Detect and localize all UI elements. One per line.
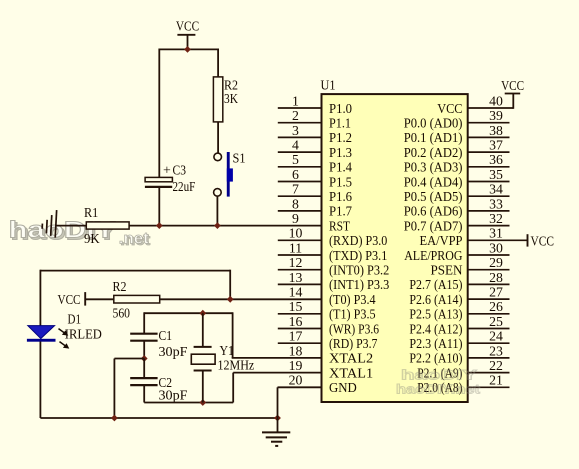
svg-text:37: 37 bbox=[489, 138, 503, 153]
U1 pin 5 stub bbox=[278, 152, 322, 167]
wire D1 anode vertical bbox=[39, 270, 41, 326]
U1 pin 34 stub bbox=[468, 182, 510, 197]
svg-text:38: 38 bbox=[489, 123, 503, 138]
svg-text:39: 39 bbox=[489, 108, 503, 123]
watermark fragment over P2.0/P2.1 rows bbox=[396, 367, 481, 397]
U1 pin 3 stub bbox=[278, 123, 322, 138]
svg-text:(T1) P3.5: (T1) P3.5 bbox=[329, 307, 376, 323]
U1 pin 6 stub bbox=[278, 167, 322, 182]
svg-text:5: 5 bbox=[292, 152, 299, 167]
resistor R2 3K bbox=[213, 77, 238, 122]
wire C3 to RST line bbox=[158, 187, 160, 226]
wire bottom ground rail bbox=[40, 417, 277, 419]
wire C1 to mid junction bbox=[143, 341, 145, 359]
svg-text:(INT0) P3.2: (INT0) P3.2 bbox=[329, 263, 389, 279]
svg-text:12MHz: 12MHz bbox=[218, 357, 255, 372]
svg-text:S1: S1 bbox=[233, 150, 246, 165]
svg-text:15: 15 bbox=[289, 299, 303, 314]
svg-text:(WR) P3.6: (WR) P3.6 bbox=[329, 321, 379, 337]
wire top loop horizontal bbox=[40, 270, 230, 272]
node crystal top junction bbox=[199, 310, 206, 317]
svg-text:P1.5: P1.5 bbox=[329, 174, 352, 189]
U1 pin 31 stub bbox=[468, 226, 528, 241]
svg-text:16: 16 bbox=[289, 314, 303, 329]
U1 pin 32 stub bbox=[468, 211, 510, 226]
svg-text:Y1: Y1 bbox=[220, 343, 235, 358]
U1 pin 28 stub bbox=[468, 270, 510, 285]
U1 pin 16 stub bbox=[278, 314, 322, 329]
svg-text:PSEN: PSEN bbox=[431, 263, 463, 278]
svg-text:C1: C1 bbox=[159, 328, 173, 343]
svg-text:14: 14 bbox=[289, 285, 303, 300]
svg-text:9: 9 bbox=[292, 211, 299, 226]
wire junction to earth bbox=[277, 418, 279, 432]
U1 pin 15 stub bbox=[278, 299, 322, 314]
svg-text:22: 22 bbox=[489, 358, 503, 373]
wire R2 to U1 pin 14 bbox=[160, 298, 322, 300]
svg-text:P2.6 (A14): P2.6 (A14) bbox=[409, 292, 462, 308]
U1 pin 7 stub bbox=[278, 182, 322, 197]
U1 pin 25 stub bbox=[468, 314, 510, 329]
U1 pin 37 stub bbox=[468, 138, 510, 153]
svg-text:VCC: VCC bbox=[437, 101, 462, 116]
U1 left pin names bbox=[329, 101, 389, 395]
node GND junction bbox=[274, 415, 281, 422]
svg-text:XTAL1: XTAL1 bbox=[329, 365, 373, 380]
svg-text:VCC: VCC bbox=[501, 78, 524, 93]
svg-text:XTAL2: XTAL2 bbox=[329, 351, 373, 366]
svg-text:9K: 9K bbox=[84, 231, 100, 246]
op IC U1 body bbox=[322, 94, 468, 402]
svg-text:35: 35 bbox=[489, 167, 503, 182]
svg-text:P2.7 (A15): P2.7 (A15) bbox=[409, 277, 462, 293]
svg-text:R1: R1 bbox=[84, 205, 98, 220]
svg-text:P0.5 (AD5): P0.5 (AD5) bbox=[404, 189, 463, 205]
U1 pin 17 stub bbox=[278, 329, 322, 344]
svg-text:31: 31 bbox=[489, 226, 503, 241]
node C3/RST junction bbox=[156, 222, 163, 229]
switch S1 bbox=[214, 150, 246, 196]
crystal Y1 12MHz bbox=[191, 343, 254, 372]
svg-text:33: 33 bbox=[489, 196, 503, 211]
svg-text:10: 10 bbox=[289, 226, 303, 241]
U1 pin 1 stub bbox=[278, 93, 322, 108]
svg-text:VCC: VCC bbox=[58, 292, 81, 307]
svg-text:13: 13 bbox=[289, 270, 303, 285]
LED D1 IRLED bbox=[27, 312, 102, 349]
node crystal bottom junction bbox=[199, 399, 206, 406]
wire U1 pin 20 GND down bbox=[277, 387, 279, 418]
wire XTAL bottom horizontal bbox=[144, 402, 233, 404]
U1 pin 26 stub bbox=[468, 299, 510, 314]
svg-text:30pF: 30pF bbox=[159, 388, 188, 403]
svg-text:P2.4 (A12): P2.4 (A12) bbox=[409, 321, 462, 337]
svg-text:haoDIY: haoDIY bbox=[401, 367, 478, 383]
svg-text:P2.2 (A10): P2.2 (A10) bbox=[409, 351, 462, 367]
U1 pin 22 stub bbox=[468, 358, 510, 373]
svg-text:30pF: 30pF bbox=[159, 344, 188, 359]
svg-text:P1.2: P1.2 bbox=[329, 130, 352, 145]
capacitor C2 30pF bbox=[130, 375, 188, 403]
wire VCC to R2 bbox=[85, 298, 114, 300]
svg-text:P1.4: P1.4 bbox=[329, 160, 352, 175]
svg-text:(RD) P3.7: (RD) P3.7 bbox=[329, 336, 377, 352]
wire crystal bottom lead bbox=[202, 371, 204, 403]
svg-text:24: 24 bbox=[489, 329, 503, 344]
U1 pin 13 stub bbox=[278, 270, 322, 285]
svg-text:8: 8 bbox=[292, 196, 299, 211]
U1 pin 10 stub bbox=[278, 226, 322, 241]
svg-text:26: 26 bbox=[489, 299, 503, 314]
U1 pin 4 stub bbox=[278, 138, 322, 153]
power VCC (U1 pin 31 EA) bbox=[528, 233, 555, 248]
svg-text:29: 29 bbox=[489, 255, 503, 270]
svg-text:(INT1) P3.3: (INT1) P3.3 bbox=[329, 277, 389, 293]
wire mid tap horizontal bbox=[114, 358, 144, 360]
U1 pin 23 stub bbox=[468, 343, 510, 358]
svg-text:17: 17 bbox=[289, 329, 303, 344]
svg-text:EA/VPP: EA/VPP bbox=[420, 233, 463, 248]
svg-text:3: 3 bbox=[292, 123, 299, 138]
power VCC (top reset circuit) bbox=[176, 19, 199, 50]
svg-text:4: 4 bbox=[292, 138, 299, 153]
svg-text:P0.6 (AD6): P0.6 (AD6) bbox=[404, 204, 463, 220]
capacitor C1 30pF bbox=[130, 328, 188, 359]
svg-text:U1: U1 bbox=[321, 78, 336, 93]
svg-text:.net: .net bbox=[119, 231, 149, 248]
svg-text:C3: C3 bbox=[173, 163, 187, 178]
wire crystal top lead bbox=[202, 313, 204, 347]
wire left cap branch down to C1 bbox=[143, 312, 145, 333]
svg-text:VCC: VCC bbox=[531, 233, 555, 248]
svg-text:P2.5 (A13): P2.5 (A13) bbox=[409, 307, 462, 323]
wire mid junction down to C2 bbox=[143, 359, 145, 379]
svg-text:P1.3: P1.3 bbox=[329, 145, 352, 160]
node C1/C2 midpoint junction bbox=[141, 355, 148, 362]
svg-text:19: 19 bbox=[289, 358, 303, 373]
U1 pin 36 stub bbox=[468, 152, 510, 167]
resistor R1 9K bbox=[84, 205, 129, 246]
svg-text:IRLED: IRLED bbox=[65, 326, 102, 341]
svg-text:27: 27 bbox=[489, 285, 503, 300]
svg-text:28: 28 bbox=[489, 270, 503, 285]
wire to U1 pin 18 XTAL2 bbox=[232, 357, 322, 359]
svg-text:21: 21 bbox=[489, 373, 503, 388]
watermark haoDIY.net bbox=[9, 217, 151, 250]
wire pin 20 stub horizontal bbox=[278, 386, 322, 388]
svg-text:(T0) P3.4: (T0) P3.4 bbox=[329, 292, 376, 308]
svg-text:D1: D1 bbox=[68, 312, 82, 327]
node S1/RST junction bbox=[214, 222, 221, 229]
svg-text:P0.0 (AD0): P0.0 (AD0) bbox=[404, 116, 463, 132]
U1 pin 33 stub bbox=[468, 196, 510, 211]
U1 pin 35 stub bbox=[468, 167, 510, 182]
power VCC (IR LED driver) bbox=[58, 292, 86, 307]
U1 pin 8 stub bbox=[278, 196, 322, 211]
U1 pin 2 stub bbox=[278, 108, 322, 123]
power VCC (U1 pin 40) bbox=[501, 78, 524, 109]
wire loop right drop to P3.4 net bbox=[229, 270, 231, 300]
svg-text:32: 32 bbox=[489, 211, 503, 226]
U1 pin 30 stub bbox=[468, 240, 510, 255]
wire VCC rail horizontal bbox=[159, 48, 218, 50]
svg-text:ALE/PROG: ALE/PROG bbox=[404, 248, 462, 263]
svg-text:20: 20 bbox=[289, 373, 303, 388]
svg-text:P2.3 (A11): P2.3 (A11) bbox=[409, 336, 462, 352]
svg-text:RST: RST bbox=[329, 218, 350, 233]
svg-text:23: 23 bbox=[489, 343, 503, 358]
svg-text:40: 40 bbox=[489, 93, 503, 108]
svg-text:6: 6 bbox=[292, 167, 299, 182]
svg-text:VCC: VCC bbox=[176, 19, 199, 34]
svg-text:34: 34 bbox=[489, 182, 503, 197]
U1 pin 9 stub bbox=[292, 211, 299, 226]
svg-text:2: 2 bbox=[292, 108, 299, 123]
U1 pin 20 stub bbox=[289, 373, 303, 388]
resistor R2 560 bbox=[113, 279, 160, 321]
wire mid tap down to bottom rail bbox=[113, 359, 115, 419]
svg-text:560: 560 bbox=[113, 306, 131, 321]
svg-text:P0.1 (AD1): P0.1 (AD1) bbox=[404, 130, 463, 146]
svg-text:P0.3 (AD3): P0.3 (AD3) bbox=[404, 160, 463, 176]
wire C2 down to bottom of loop bbox=[143, 385, 145, 402]
U1 pin 18 stub bbox=[289, 343, 303, 358]
U1 pin 29 stub bbox=[468, 255, 510, 270]
svg-text:18: 18 bbox=[289, 343, 303, 358]
svg-text:P0.2 (AD2): P0.2 (AD2) bbox=[404, 145, 463, 161]
U1 pin 11 stub bbox=[278, 240, 322, 255]
node VCC rail junction bbox=[184, 46, 191, 53]
svg-text:(RXD) P3.0: (RXD) P3.0 bbox=[329, 233, 387, 249]
wire D1 cathode down to bottom rail bbox=[39, 342, 41, 419]
wire right branch down to R2 bbox=[217, 49, 219, 78]
svg-text:+: + bbox=[163, 163, 171, 178]
svg-text:(TXD) P3.1: (TXD) P3.1 bbox=[329, 248, 387, 264]
wire XTAL2 drop bbox=[232, 312, 234, 358]
svg-text:P1.6: P1.6 bbox=[329, 189, 352, 204]
svg-text:P1.1: P1.1 bbox=[329, 116, 351, 131]
wire XTAL top horizontal bbox=[144, 312, 232, 314]
U1 pin 39 stub bbox=[468, 108, 510, 123]
U1 pin 24 stub bbox=[468, 329, 510, 344]
svg-text:GND: GND bbox=[329, 380, 357, 395]
svg-text:12: 12 bbox=[289, 255, 303, 270]
wire S1 to RST line bbox=[216, 196, 218, 225]
svg-text:3K: 3K bbox=[224, 91, 238, 106]
wire left branch down to C3 bbox=[158, 49, 160, 178]
U1 pin 38 stub bbox=[468, 123, 510, 138]
svg-text:P1.0: P1.0 bbox=[329, 101, 352, 116]
svg-text:P0.7 (AD7): P0.7 (AD7) bbox=[404, 218, 463, 234]
ground (earth, bottom) bbox=[262, 432, 290, 446]
svg-text:P0.4 (AD4): P0.4 (AD4) bbox=[404, 174, 463, 190]
node loop/P3.4 junction bbox=[227, 296, 234, 303]
U1 pin 12 stub bbox=[278, 255, 322, 270]
U1 pin 40 stub bbox=[468, 93, 514, 108]
svg-text:1: 1 bbox=[292, 93, 299, 108]
svg-text:30: 30 bbox=[489, 240, 503, 255]
U1 pin 19 stub bbox=[289, 358, 303, 373]
wire RST net to U1 pin 9 bbox=[56, 225, 322, 227]
svg-text:P1.7: P1.7 bbox=[329, 204, 352, 219]
svg-text:7: 7 bbox=[292, 182, 299, 197]
svg-text:22uF: 22uF bbox=[173, 179, 196, 194]
wire to U1 pin 19 XTAL1 bbox=[233, 372, 321, 374]
ground (analog, left of R1) bbox=[42, 209, 57, 237]
node tap/bottom rail junction bbox=[111, 415, 118, 422]
svg-text:25: 25 bbox=[489, 314, 503, 329]
U1 pin 14 stub bbox=[289, 285, 303, 300]
U1 pin 27 stub bbox=[468, 285, 510, 300]
svg-text:haoDIY.net: haoDIY.net bbox=[396, 382, 481, 397]
wire XTAL1 drop to loop bottom bbox=[232, 373, 234, 403]
svg-text:R2: R2 bbox=[113, 279, 127, 294]
svg-text:11: 11 bbox=[289, 240, 302, 255]
capacitor C3 22uF (electrolytic) bbox=[145, 163, 196, 195]
U1 pin 21 stub bbox=[468, 373, 510, 388]
svg-text:36: 36 bbox=[489, 152, 503, 167]
wire R2 to S1 bbox=[217, 122, 219, 153]
U1 right pin names bbox=[404, 101, 463, 396]
